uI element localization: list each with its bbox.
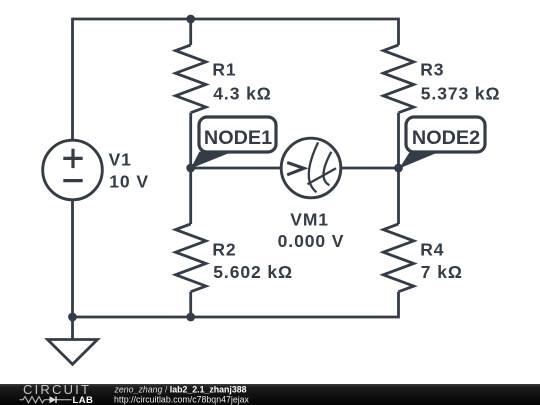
svg-text:VM1: VM1 [290, 209, 329, 229]
svg-text:NODE2: NODE2 [412, 127, 480, 149]
svg-text:LAB: LAB [73, 395, 94, 405]
svg-text:10 V: 10 V [109, 172, 149, 192]
svg-text:5.602 kΩ: 5.602 kΩ [213, 262, 293, 282]
svg-text:R4: R4 [420, 239, 444, 259]
svg-text:NODE1: NODE1 [204, 127, 272, 149]
svg-text:4.3 kΩ: 4.3 kΩ [213, 83, 271, 103]
svg-text:R2: R2 [212, 239, 236, 259]
svg-text:zeno_zhang / lab2_2.1_zhanj388: zeno_zhang / lab2_2.1_zhanj388 [114, 384, 247, 394]
svg-text:R3: R3 [420, 60, 444, 80]
svg-text:5.373 kΩ: 5.373 kΩ [421, 83, 501, 103]
svg-text:0.000 V: 0.000 V [278, 231, 345, 251]
svg-text:V1: V1 [109, 149, 132, 169]
svg-text:7 kΩ: 7 kΩ [421, 262, 463, 282]
svg-text:R1: R1 [212, 60, 236, 80]
svg-text:http://circuitlab.com/c78bqn47: http://circuitlab.com/c78bqn47jejax [114, 394, 250, 404]
